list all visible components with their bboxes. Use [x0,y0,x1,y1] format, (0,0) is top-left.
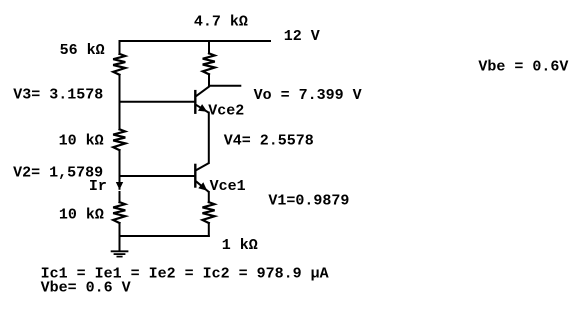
svg-text:Vce2: Vce2 [208,102,244,119]
transistor Q1 (NPN, bottom) [195,163,209,192]
resistor 10 kΩ lower [113,202,125,223]
resistor 1 kΩ [203,202,215,223]
svg-text:V3= 3.1578: V3= 3.1578 [13,86,103,103]
svg-text:V4= 2.5578: V4= 2.5578 [224,132,314,149]
svg-text:10 kΩ: 10 kΩ [59,133,104,150]
svg-text:1 kΩ: 1 kΩ [222,237,258,254]
wire rail to 4.7k [208,41,210,54]
wire node V2 segment (10k to Q1 base junction) [119,150,121,176]
wire left branch upper (rail to 56k) [119,41,121,54]
wire bottom return (1k bottom to ground node) [120,235,209,237]
svg-text:Ir: Ir [89,178,107,195]
svg-text:V1=0.9879: V1=0.9879 [268,193,349,210]
svg-text:Vbe = 0.6V: Vbe = 0.6V [478,58,568,75]
wire 56k to node V3 / Q2 base junction [119,75,121,130]
svg-text:12 V: 12 V [284,28,320,45]
svg-text:Vo = 7.399 V: Vo = 7.399 V [254,87,362,104]
Ir current arrowhead [116,182,123,190]
wire Vo output stub [209,85,240,87]
wire top supply rail 12V [120,40,271,42]
wire Q2 base to left column (node V3) [120,101,195,103]
svg-text:10 kΩ: 10 kΩ [59,206,104,223]
resistor 4.7 kΩ [203,53,215,74]
wire 4.7k to Q2 collector node [208,74,210,86]
wire bottom node to ground stem [119,236,121,251]
svg-text:Vce1: Vce1 [210,178,246,195]
wire Q1 base to left column (node V2) [120,175,195,177]
svg-text:4.7 kΩ: 4.7 kΩ [194,13,248,30]
resistor 10 kΩ upper [113,129,125,150]
wire 1k to bottom node [208,223,210,236]
transistor Q2 (NPN, top) [195,86,209,114]
ground symbol [111,251,129,256]
svg-text:56 kΩ: 56 kΩ [60,42,105,59]
wire Ir segment with gap for arrow [119,176,121,202]
wire Q2 emitter to Q1 collector (node V4) [208,113,210,163]
wire 10k lower to bottom node [119,223,121,236]
wire Q1 emitter to 1k [208,192,210,202]
resistor 56 kΩ [113,54,125,75]
svg-text:Vbe= 0.6 V: Vbe= 0.6 V [41,280,131,297]
